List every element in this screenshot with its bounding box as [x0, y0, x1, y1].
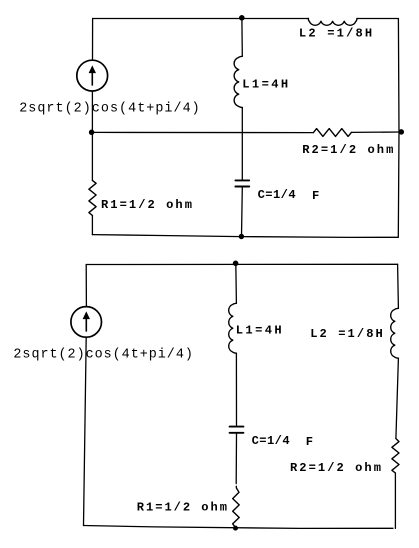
wire: right rail (top circuit) — [397, 19, 400, 238]
wire: bottom rail (bottom circuit) — [84, 526, 394, 529]
junction dot: bottom rail / middle branch (bottom circuit) — [233, 526, 238, 531]
wire: bottom rail (top circuit) — [92, 235, 398, 238]
svg-text:L2 =1/8H: L2 =1/8H — [299, 27, 372, 41]
resistor R2 (bottom circuit, vertical zigzag) — [392, 439, 399, 474]
wire: middle branch above L1 (bottom circuit) — [235, 263, 238, 303]
resistor R1 (bottom circuit, vertical zigzag) — [233, 486, 240, 527]
svg-text:L1=4H: L1=4H — [242, 78, 288, 92]
svg-text:2sqrt(2)cos(4t+pi/4): 2sqrt(2)cos(4t+pi/4) — [19, 102, 200, 117]
capacitor C bottom plate (bottom circuit) — [230, 432, 244, 434]
svg-text:R1=1/2 ohm: R1=1/2 ohm — [101, 198, 192, 212]
svg-text:R2=1/2 ohm: R2=1/2 ohm — [290, 461, 381, 475]
current source I1 arrow shaft (bottom circuit) — [85, 319, 87, 332]
svg-text:F: F — [312, 189, 319, 203]
current source I1 circle (top circuit) — [77, 60, 108, 91]
svg-text:C=1/4: C=1/4 — [252, 434, 290, 448]
wire: top rail (bottom circuit) — [86, 263, 397, 265]
svg-text:F: F — [306, 435, 313, 449]
inductor L2 (bottom circuit, vertical coil, 4 scallops) — [391, 308, 399, 358]
wire: middle branch between L1 and C (bottom circuit) — [235, 353, 237, 425]
svg-text:R1=1/2 ohm: R1=1/2 ohm — [137, 500, 227, 514]
inductor L2 (top circuit, horizontal coil, 4 scallops) — [308, 19, 357, 26]
capacitor C top plate (top circuit) — [235, 179, 249, 181]
inductor L1 (bottom circuit, vertical coil, 4 scallops) — [229, 303, 237, 353]
junction dot: top rail / middle branch (bottom circuit) — [233, 261, 239, 267]
current source I1 arrow shaft (top circuit) — [91, 73, 93, 86]
svg-text:L2 =1/8H: L2 =1/8H — [310, 327, 383, 341]
svg-text:C=1/4: C=1/4 — [258, 188, 296, 202]
junction dot: right rail / R2 row (top circuit) — [399, 129, 405, 135]
wire: left rail between source and R1 (top circuit) — [91, 91, 93, 180]
resistor R2 (top circuit, horizontal zigzag) — [313, 129, 351, 137]
wire: right rail below R2 (bottom circuit) — [394, 473, 396, 528]
inductor L1 (top circuit, vertical coil, 4 scallops) — [234, 56, 242, 107]
svg-text:2sqrt(2)cos(4t+pi/4): 2sqrt(2)cos(4t+pi/4) — [13, 348, 193, 363]
junction dot: top rail / middle branch (top circuit) — [239, 15, 245, 21]
wire: middle branch above L1 (top circuit) — [241, 19, 243, 57]
wire: middle branch between L1 and C (top circuit) — [241, 108, 243, 180]
wire: R2 row left of zigzag (top circuit) — [92, 131, 313, 133]
wire: left rail below current source (bottom circuit) — [84, 337, 87, 525]
wire: left rail above current source (bottom circuit) — [85, 265, 87, 307]
wire: right rail above L2 (bottom circuit) — [397, 264, 400, 308]
svg-text:R2=1/2 ohm: R2=1/2 ohm — [302, 143, 393, 157]
wire: top rail left of L2 (top circuit) — [93, 18, 309, 20]
current source I1 arrow head (top circuit) — [89, 65, 96, 73]
current source I1 circle (bottom circuit) — [71, 307, 102, 338]
capacitor C top plate (bottom circuit) — [230, 426, 244, 428]
wire: left rail below R1 (top circuit) — [91, 216, 93, 235]
wire: R2 row right of zigzag (top circuit) — [351, 131, 401, 133]
current source I1 arrow head (bottom circuit) — [83, 311, 90, 319]
capacitor C bottom plate (top circuit) — [235, 186, 249, 188]
junction dot: bottom rail / middle branch (top circuit) — [239, 234, 244, 239]
wire: middle branch below C (top circuit) — [241, 188, 244, 237]
svg-text:L1=4H: L1=4H — [236, 323, 282, 337]
wire: middle branch between C and R1 (bottom circuit) — [235, 434, 237, 484]
wire: right rail between L2 and R2 (bottom circuit) — [396, 358, 399, 438]
resistor R1 (top circuit, vertical zigzag) — [89, 180, 96, 215]
wire: left rail above current source (top circuit) — [92, 19, 94, 61]
junction dot: left rail / R2 row (top circuit) — [89, 130, 95, 136]
wire: top rail right of L2 (top circuit) — [357, 18, 398, 20]
